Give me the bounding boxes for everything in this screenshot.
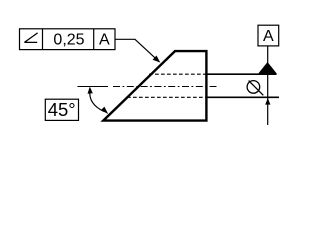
svg-text:0,25: 0,25 [53,32,84,49]
svg-text:A: A [99,32,110,49]
svg-text:A: A [263,28,274,45]
svg-text:45°: 45° [48,99,76,120]
